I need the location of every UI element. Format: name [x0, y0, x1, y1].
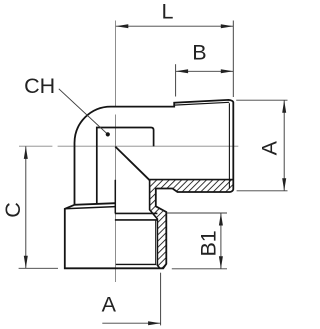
dimension A (right): [236, 100, 287, 191]
dimension B1: [167, 213, 227, 269]
vertical leg bore + jog + socket thread crest line: [150, 180, 160, 269]
svg-text:A: A: [257, 140, 281, 155]
svg-text:B: B: [192, 41, 206, 65]
miter diagonal: [115, 147, 149, 181]
hex flat (CH square): [97, 128, 154, 205]
dimension C: [19, 146, 58, 268]
dimension L: [116, 21, 234, 98]
hatched section region (male thread bottom wall + vertical leg wall + socket wall): [150, 180, 234, 269]
socket step base edge: [65, 207, 115, 209]
svg-text:L: L: [162, 0, 174, 23]
svg-text:B1: B1: [197, 230, 221, 256]
male thread root line (top): [174, 102, 229, 105]
svg-text:C: C: [1, 202, 25, 218]
socket bottom chamfer line: [116, 263, 156, 265]
body outline: [65, 100, 234, 268]
bore line of horizontal leg (hatch top): [150, 179, 234, 181]
socket interior face line: [115, 212, 157, 214]
svg-text:CH: CH: [24, 74, 55, 98]
centerline horizontal axis: [19, 145, 238, 147]
vertical cut edge at axis: [114, 180, 116, 214]
socket interior thread-start line: [115, 219, 157, 221]
internal thread root thin line: [155, 221, 157, 265]
svg-text:A: A: [102, 293, 117, 317]
male thread end chamfer line: [228, 103, 230, 188]
dimension B: [176, 64, 234, 96]
centerline vertical axis: [19, 21, 238, 283]
dimension A (bottom): [102, 273, 160, 326]
